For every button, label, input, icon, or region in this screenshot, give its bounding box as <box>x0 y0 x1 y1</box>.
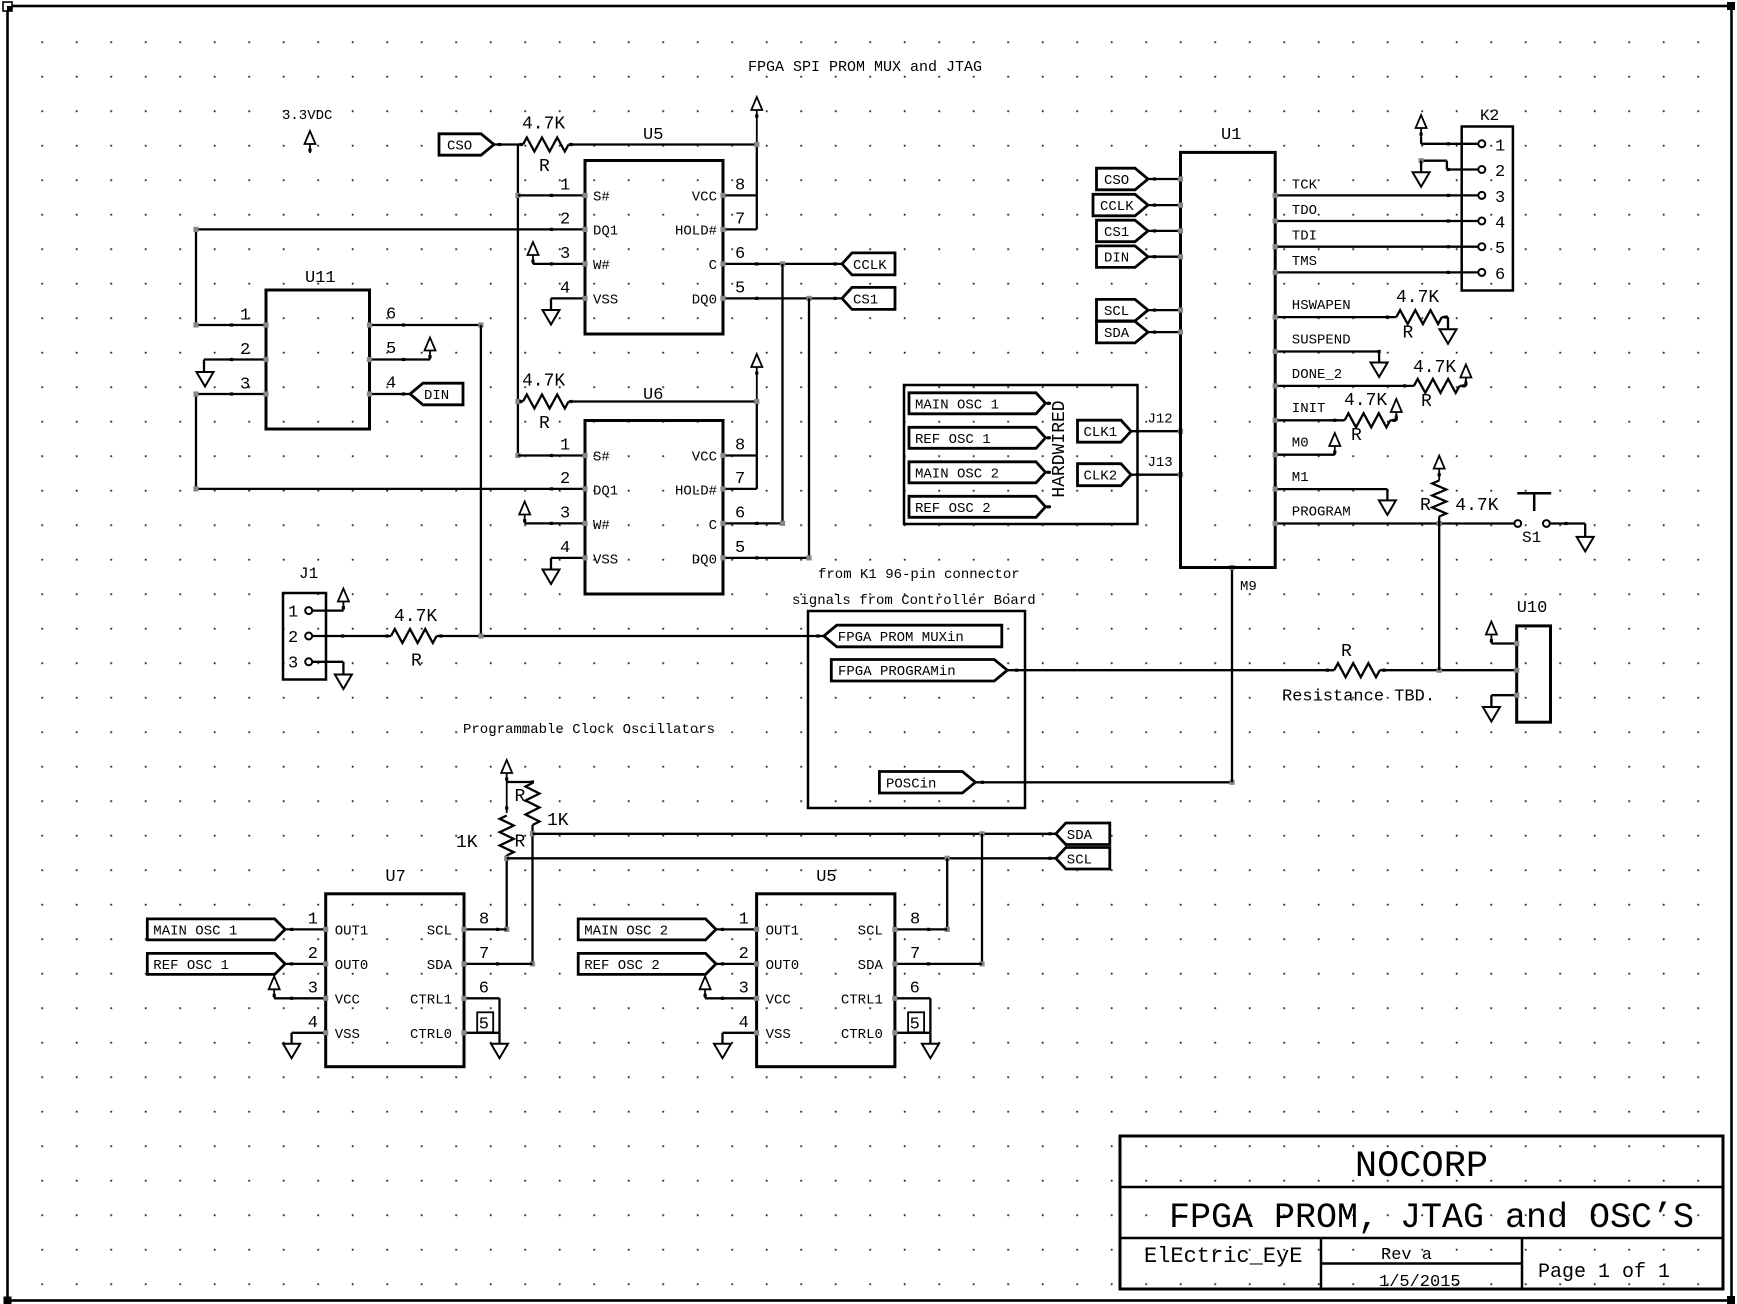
chip U10 <box>1517 599 1551 722</box>
wire FPGA PROGRAMin to resistor R <box>1007 669 1334 672</box>
tag CCLK to U1 <box>1093 194 1183 216</box>
svg-text:6: 6 <box>735 505 745 524</box>
svg-text:DQ1: DQ1 <box>593 224 618 240</box>
svg-text:CTRL0: CTRL0 <box>410 1027 452 1043</box>
chip U7 (programmable oscillator) <box>326 868 464 1067</box>
svg-text:signals from Controller Board: signals from Controller Board <box>792 593 1036 609</box>
svg-text:FPGA SPI PROM MUX and JTAG: FPGA SPI PROM MUX and JTAG <box>748 59 982 76</box>
svg-text:OUT1: OUT1 <box>766 924 800 940</box>
svg-text:VSS: VSS <box>593 553 618 569</box>
svg-text:HOLD#: HOLD# <box>675 224 717 240</box>
power VCC arrow above PROGRAM resistor <box>1434 456 1445 481</box>
svg-text:R: R <box>1403 324 1414 344</box>
U7 pin 4 VSS wire to ground <box>292 1014 329 1044</box>
svg-text:U5: U5 <box>643 126 663 145</box>
U5 pin 5 DQ0 wire to CS1 <box>720 280 846 302</box>
svg-text:VCC: VCC <box>335 993 360 1009</box>
svg-text:DQ0: DQ0 <box>692 553 717 569</box>
svg-text:VCC: VCC <box>692 190 717 206</box>
svg-text:TDI: TDI <box>1292 229 1317 245</box>
svg-text:C: C <box>709 258 717 274</box>
svg-text:1: 1 <box>308 911 318 930</box>
svg-text:Rev a: Rev a <box>1381 1246 1432 1265</box>
wire CSO to resistor <box>494 143 523 146</box>
svg-text:U11: U11 <box>305 269 336 288</box>
svg-text:MAIN OSC 2: MAIN OSC 2 <box>915 466 999 482</box>
wire resistor to VCC vertical <box>569 143 757 145</box>
svg-text:2: 2 <box>560 470 570 489</box>
U6 pin 7 HOLD# wire <box>720 470 756 492</box>
svg-text:C: C <box>709 518 717 534</box>
chip U1 (FPGA) <box>1181 126 1276 568</box>
svg-text:R: R <box>1351 426 1362 446</box>
svg-text:DONE_2: DONE_2 <box>1292 367 1342 383</box>
U5 pin 6 C wire to CCLK <box>720 245 843 267</box>
wire CLK2 to U1 pin J13 <box>1131 455 1183 477</box>
svg-text:CLK1: CLK1 <box>1084 425 1118 441</box>
wire SCL drop to U9 pin8 <box>945 858 950 932</box>
svg-text:J12: J12 <box>1148 412 1173 428</box>
ground at J1 pin 3 <box>335 675 352 690</box>
U5 pin 8 VCC wire <box>720 177 756 199</box>
svg-text:1: 1 <box>560 437 570 456</box>
tag MAIN OSC 2 <box>909 462 1051 483</box>
ground at S1 <box>1577 537 1594 552</box>
tag SCL to U1 <box>1097 299 1184 321</box>
svg-text:OUT0: OUT0 <box>335 958 369 974</box>
svg-text:4: 4 <box>386 375 396 394</box>
svg-text:R: R <box>515 787 526 807</box>
svg-text:DIN: DIN <box>1104 251 1129 267</box>
U1 pin M0 wire to VCC <box>1273 433 1341 457</box>
svg-text:SDA: SDA <box>1067 828 1093 844</box>
svg-text:U5: U5 <box>816 868 836 887</box>
U11 pin 3 wire <box>196 376 269 397</box>
svg-text:U6: U6 <box>643 386 663 405</box>
resistor R 4.7K (INIT) <box>1344 391 1396 446</box>
svg-text:1: 1 <box>1495 137 1505 156</box>
svg-text:REF OSC 2: REF OSC 2 <box>584 958 660 974</box>
svg-text:Programmable Clock Oscillators: Programmable Clock Oscillators <box>463 722 715 738</box>
svg-text:1: 1 <box>288 604 298 623</box>
U6 pin 3 W# wire with VCC <box>519 502 587 527</box>
svg-text:4.7K: 4.7K <box>394 607 437 627</box>
resistor R 4.7K (DONE_2) <box>1413 358 1465 412</box>
power 3.3VDC arrow <box>305 131 316 153</box>
box K1 signals group <box>808 611 1025 808</box>
svg-text:3: 3 <box>308 980 318 999</box>
svg-text:R: R <box>1341 642 1352 662</box>
wire VCC vertical U6 (pin8/7 tie) <box>754 399 759 489</box>
resistor R 4.7K (PROGRAM pull-up, vertical) <box>1420 481 1499 517</box>
svg-text:3: 3 <box>560 505 570 524</box>
U1 pin SUSPEND wire <box>1273 333 1381 363</box>
svg-text:SDA: SDA <box>858 958 884 974</box>
ground at SUSPEND <box>1371 363 1388 378</box>
svg-text:6: 6 <box>386 306 396 325</box>
svg-text:HOLD#: HOLD# <box>675 484 717 500</box>
svg-text:SCL: SCL <box>427 924 452 940</box>
svg-text:DQ1: DQ1 <box>593 484 618 500</box>
U5 pin 1 S# wire <box>518 177 588 199</box>
svg-text:J13: J13 <box>1148 455 1173 471</box>
U1 pin TDO wire to K2-4 <box>1273 203 1479 224</box>
U1 pin HSWAPEN wire <box>1273 298 1397 320</box>
tag DIN (net label) <box>410 383 463 405</box>
U1 pin TDI wire to K2-5 <box>1273 229 1479 250</box>
svg-text:NOCORP: NOCORP <box>1355 1146 1488 1188</box>
tag FPGA PROM MUXin (input) <box>824 625 1002 647</box>
svg-text:CCLK: CCLK <box>1100 199 1134 215</box>
svg-text:CLK2: CLK2 <box>1084 469 1118 485</box>
U5 pin 4 VSS wire to ground <box>723 1014 760 1044</box>
svg-text:2: 2 <box>288 629 298 648</box>
svg-text:SCL: SCL <box>858 924 883 940</box>
svg-text:3: 3 <box>1495 189 1505 208</box>
svg-text:3.3VDC: 3.3VDC <box>282 108 332 124</box>
svg-text:7: 7 <box>910 945 920 964</box>
svg-text:TCK: TCK <box>1292 178 1318 194</box>
ground at M1 <box>1379 500 1396 515</box>
svg-text:SDA: SDA <box>1104 326 1130 342</box>
tag REF OSC 2 to U5 pin 2 <box>578 945 759 974</box>
tag CCLK (net label) <box>833 253 895 275</box>
svg-text:7: 7 <box>479 945 489 964</box>
svg-text:5: 5 <box>386 340 396 359</box>
svg-text:POSCin: POSCin <box>886 776 936 792</box>
svg-text:2: 2 <box>1495 163 1505 182</box>
svg-text:1: 1 <box>560 177 570 196</box>
svg-text:S1: S1 <box>1522 529 1541 547</box>
wire resistor to U6 VCC vertical <box>569 400 757 402</box>
K2 pin 2 wire to ground <box>1419 158 1479 172</box>
svg-text:R: R <box>539 157 550 177</box>
tag MAIN OSC 1 <box>909 393 1051 414</box>
chip U5 (programmable oscillator) <box>757 868 895 1067</box>
J1 pin 3 wire to ground <box>312 662 343 675</box>
svg-text:6: 6 <box>479 980 489 999</box>
tag FPGA PROGRAMin (output) <box>831 660 1007 682</box>
svg-text:CTRL1: CTRL1 <box>841 993 883 1009</box>
box hardwired clock group <box>904 385 1138 524</box>
svg-text:4.7K: 4.7K <box>522 115 565 135</box>
connector K2 (JTAG header) <box>1462 107 1513 291</box>
tag MAIN OSC 2 to U5 pin 1 <box>578 911 759 940</box>
ground at K2 pin 2 <box>1413 172 1430 187</box>
tag DIN to U1 <box>1097 246 1184 268</box>
svg-text:5: 5 <box>910 1016 920 1035</box>
svg-text:2: 2 <box>240 341 250 360</box>
wire SCL net <box>504 855 1056 932</box>
svg-text:7: 7 <box>735 211 745 230</box>
svg-text:TMS: TMS <box>1292 254 1317 270</box>
tag CLK2 (output to U1 J13) <box>1078 464 1132 486</box>
U10 middle pin connection <box>1514 668 1519 673</box>
svg-text:6: 6 <box>910 980 920 999</box>
svg-text:4.7K: 4.7K <box>1455 496 1498 516</box>
U6 pin 4 VSS wire <box>551 539 588 570</box>
svg-text:VCC: VCC <box>692 450 717 466</box>
U11 pin 2 wire to ground <box>204 341 269 372</box>
svg-text:M0: M0 <box>1292 436 1309 452</box>
svg-text:CTRL1: CTRL1 <box>410 993 452 1009</box>
svg-text:VSS: VSS <box>766 1027 791 1043</box>
tag REF OSC 1 <box>909 427 1051 448</box>
wire CS1 vertical U5.DQ0 to U6.DQ0 <box>808 298 810 558</box>
svg-text:U10: U10 <box>1517 599 1548 618</box>
U7 pin 7 SDA wire <box>461 945 532 967</box>
svg-text:HARDWIRED: HARDWIRED <box>1050 400 1070 497</box>
K2 pin 1 wire to VCC <box>1416 115 1479 145</box>
svg-text:CSO: CSO <box>1104 173 1129 189</box>
chip U11 (MUX) <box>266 269 370 429</box>
power VCC arrow at U6 <box>751 354 762 402</box>
svg-text:REF OSC 1: REF OSC 1 <box>153 958 229 974</box>
svg-text:1K: 1K <box>456 833 478 853</box>
tag MAIN OSC 1 to U7 pin 1 <box>147 911 328 940</box>
svg-text:Page 1 of 1: Page 1 of 1 <box>1538 1261 1670 1284</box>
svg-text:M1: M1 <box>1292 470 1309 486</box>
svg-text:VSS: VSS <box>593 293 618 309</box>
U6 pin 6 C wire <box>720 505 785 527</box>
wire CCLK vertical U5.C to U6.C <box>781 264 783 524</box>
chip U5 (SPI PROM) <box>585 126 723 334</box>
svg-text:R: R <box>539 414 550 434</box>
svg-text:4: 4 <box>560 280 570 299</box>
svg-text:FPGA PROM MUXin: FPGA PROM MUXin <box>838 630 964 646</box>
svg-text:R: R <box>411 652 422 672</box>
ground at U11 pin 2 <box>197 372 214 387</box>
ground at U7 CTRL <box>491 1044 508 1059</box>
ground at HSWAPEN <box>1440 329 1457 344</box>
svg-text:MAIN OSC 1: MAIN OSC 1 <box>153 923 237 939</box>
wire VCC vertical U5 (pin8/7 tie) <box>754 142 759 230</box>
resistor R 4.7K (HSWAPEN) <box>1396 288 1448 344</box>
U6 pin 5 DQ0 wire <box>720 539 811 561</box>
svg-text:6: 6 <box>735 245 745 264</box>
U7 pin 8 SCL wire <box>461 911 506 933</box>
ground at U5 VSS <box>714 1044 731 1059</box>
svg-text:SCL: SCL <box>1067 852 1092 868</box>
resistor R 1K (SCL pull-up, vertical) <box>456 816 526 856</box>
svg-text:W#: W# <box>593 258 610 274</box>
svg-text:8: 8 <box>735 177 745 196</box>
U11 pin 6 wire <box>367 306 484 328</box>
svg-text:SDA: SDA <box>427 958 453 974</box>
U1 pin INIT wire <box>1273 401 1345 423</box>
switch S1 (pushbutton) <box>1514 493 1551 547</box>
tag CS1 to U1 <box>1097 220 1184 242</box>
svg-text:3: 3 <box>240 376 250 395</box>
svg-text:3: 3 <box>560 245 570 264</box>
U5 pin 2 DQ1 wire (to U11 pin1) <box>196 211 588 233</box>
wire CLK1 to U1 pin J12 <box>1131 412 1183 434</box>
svg-text:R: R <box>515 833 526 853</box>
svg-text:CS1: CS1 <box>853 292 878 308</box>
svg-text:5: 5 <box>735 539 745 558</box>
U5 pin 6/5 CTRL tie wire <box>892 980 930 1044</box>
svg-text:R: R <box>1420 496 1431 516</box>
svg-text:U7: U7 <box>385 868 405 887</box>
wire M9 vertical from U1 <box>1229 565 1256 782</box>
title block <box>1120 1136 1723 1289</box>
U1 pin TMS wire to K2-6 <box>1273 254 1479 275</box>
U1 pin M1 wire to ground <box>1273 470 1388 500</box>
svg-text:3: 3 <box>288 655 298 674</box>
U7 pin 6/5 CTRL tie wire <box>461 980 499 1044</box>
wire INIT resistor to VCC <box>1390 399 1402 421</box>
ground at U7 VSS <box>283 1044 300 1059</box>
svg-text:4: 4 <box>560 539 570 558</box>
U1 pin DONE_2 wire <box>1273 367 1414 389</box>
U11 pin 1 wire <box>196 307 269 328</box>
svg-text:1: 1 <box>240 307 250 326</box>
U7 pin 3 VCC wire <box>269 976 329 1001</box>
tag REF OSC 2 <box>909 496 1051 517</box>
svg-text:SCL: SCL <box>1104 304 1129 320</box>
resistor R 4.7K (U5 S# pull-up) <box>519 115 572 178</box>
svg-text:4: 4 <box>739 1014 749 1033</box>
power VCC arrow for I2C pull-ups <box>501 760 512 813</box>
svg-text:R: R <box>1421 392 1432 412</box>
svg-text:DQ0: DQ0 <box>692 293 717 309</box>
tag REF OSC 1 to U7 pin 2 <box>147 945 328 974</box>
svg-text:5: 5 <box>735 280 745 299</box>
svg-text:2: 2 <box>739 945 749 964</box>
svg-text:2: 2 <box>560 211 570 230</box>
U10 top pin wire to VCC <box>1486 622 1519 647</box>
resistor R (Resistance TBD) <box>1334 642 1385 677</box>
svg-text:2: 2 <box>308 945 318 964</box>
svg-text:INIT: INIT <box>1292 401 1326 417</box>
svg-text:4.7K: 4.7K <box>1344 391 1387 411</box>
U1 pin PROGRAM wire to S1 <box>1273 505 1515 527</box>
svg-text:CCLK: CCLK <box>853 258 887 274</box>
wire HSWAPEN resistor to ground <box>1442 317 1448 329</box>
ground at U5 CTRL <box>922 1044 939 1059</box>
U6 pin 8 VCC wire <box>720 437 756 459</box>
svg-text:3: 3 <box>739 980 749 999</box>
svg-text:CTRL0: CTRL0 <box>841 1027 883 1043</box>
tag CSO to U1 <box>1097 168 1184 190</box>
resistor R 4.7K (U6 S# pull-up) <box>519 372 572 435</box>
svg-text:REF OSC 1: REF OSC 1 <box>915 432 991 448</box>
tag POSCin (output) <box>879 772 975 794</box>
svg-text:PROGRAM: PROGRAM <box>1292 505 1351 521</box>
U11 pin 4 wire to DIN <box>367 375 410 397</box>
tag CLK1 (output to U1 J12) <box>1078 420 1132 442</box>
U9 pin 8 SCL wire <box>892 911 947 933</box>
resistor R 4.7K (J1 series) <box>391 607 443 672</box>
U6 pin 2 DQ1 wire (to U11 pin3) <box>196 470 588 492</box>
svg-text:ElEctric_EyE: ElEctric_EyE <box>1144 1244 1302 1269</box>
J1 pin 2 wire to resistor <box>312 634 391 637</box>
svg-text:FPGA PROM, JTAG and OSC’S: FPGA PROM, JTAG and OSC’S <box>1169 1198 1694 1238</box>
svg-text:7: 7 <box>735 470 745 489</box>
wire S1 to ground <box>1550 522 1585 537</box>
wire PROGRAM resistor vertical <box>1438 517 1440 671</box>
svg-text:W#: W# <box>593 518 610 534</box>
U6 pin 1 S# wire <box>518 437 588 459</box>
connector J1 <box>283 565 326 680</box>
svg-text:4.7K: 4.7K <box>522 372 565 392</box>
wire J1 resistor to FPGA PROM MUXin <box>437 633 824 638</box>
svg-text:OUT1: OUT1 <box>335 924 369 940</box>
svg-text:K2: K2 <box>1480 107 1499 125</box>
svg-text:FPGA PROGRAMin: FPGA PROGRAMin <box>838 664 956 680</box>
wire DONE_2 resistor to VCC <box>1460 365 1472 387</box>
node U11 pin6 vertical to J1 net <box>480 325 482 636</box>
svg-text:4.7K: 4.7K <box>1413 358 1456 378</box>
tag SDA to U1 <box>1097 321 1184 343</box>
node U11 pin3 to U6 DQ1 vertical <box>193 391 198 491</box>
svg-text:4: 4 <box>1495 215 1505 234</box>
node CSO vertical to U5/U6 S# <box>515 145 520 459</box>
wire SDA net <box>530 831 1056 966</box>
U5 pin 3 W# wire with VCC <box>528 242 588 267</box>
svg-text:J1: J1 <box>299 565 318 583</box>
tag CSO (net label, output) <box>439 134 494 155</box>
wire pull-up tee to second resistor <box>505 780 534 809</box>
svg-text:from K1 96-pin connector: from K1 96-pin connector <box>818 567 1020 583</box>
chip U6 (SPI PROM) <box>585 386 723 594</box>
U5 pin 3 VCC wire <box>700 976 760 1001</box>
J1 pin 1 wire to VCC <box>312 589 349 611</box>
svg-text:CS1: CS1 <box>1104 225 1129 241</box>
tag SCL (net label right) <box>1056 848 1110 870</box>
svg-text:HSWAPEN: HSWAPEN <box>1292 298 1351 314</box>
svg-text:OUT0: OUT0 <box>766 958 800 974</box>
wire POSCin to M9 node <box>975 780 1234 785</box>
svg-text:M9: M9 <box>1240 579 1257 595</box>
U5 pin 7 HOLD# wire <box>720 211 756 233</box>
tag CS1 (net label) <box>833 287 895 309</box>
ground at U6 VSS <box>543 570 560 585</box>
svg-text:SUSPEND: SUSPEND <box>1292 333 1351 349</box>
svg-text:1K: 1K <box>547 811 569 831</box>
svg-text:8: 8 <box>479 911 489 930</box>
svg-text:4: 4 <box>308 1014 318 1033</box>
svg-text:8: 8 <box>735 437 745 456</box>
svg-text:6: 6 <box>1495 266 1505 285</box>
svg-text:TDO: TDO <box>1292 203 1317 219</box>
svg-text:VSS: VSS <box>335 1027 360 1043</box>
svg-text:MAIN OSC 1: MAIN OSC 1 <box>915 397 999 413</box>
svg-text:1: 1 <box>739 911 749 930</box>
wire SDA drop to U9 pin7 <box>979 834 984 967</box>
U5 pin 4 VSS wire <box>551 280 588 311</box>
svg-text:DIN: DIN <box>424 388 449 404</box>
svg-text:8: 8 <box>910 911 920 930</box>
svg-text:Resistance TBD.: Resistance TBD. <box>1282 688 1435 707</box>
resistor R 1K (SDA pull-up, vertical) <box>515 783 569 834</box>
svg-text:4.7K: 4.7K <box>1396 288 1439 308</box>
node U11 pin1 to U5 DQ1 vertical <box>193 227 198 328</box>
U1 pin TCK wire to K2-3 <box>1273 178 1479 199</box>
U11 pin 5 wire with VCC <box>367 338 436 363</box>
U9 pin 7 SDA wire <box>892 945 982 967</box>
svg-text:S#: S# <box>593 190 610 206</box>
svg-text:1/5/2015: 1/5/2015 <box>1379 1273 1461 1292</box>
svg-text:REF OSC 2: REF OSC 2 <box>915 501 991 517</box>
svg-text:5: 5 <box>479 1016 489 1035</box>
svg-text:CSO: CSO <box>447 139 472 155</box>
ground at U5 VSS <box>543 310 560 325</box>
U10 bottom pin wire to ground <box>1491 693 1519 707</box>
svg-text:VCC: VCC <box>766 993 791 1009</box>
ground at U10 <box>1483 707 1500 722</box>
svg-text:MAIN OSC 2: MAIN OSC 2 <box>584 923 668 939</box>
